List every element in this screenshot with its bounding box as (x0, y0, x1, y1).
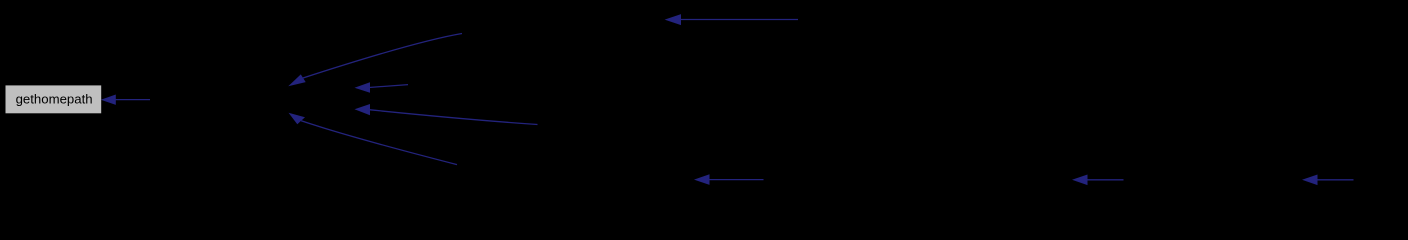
wire edge E2 curve from upper right (303, 34, 462, 79)
arrowhead E2 (288, 74, 306, 86)
arrowhead E5 (289, 113, 306, 125)
wire edge Eb1 (708, 179, 764, 181)
svg-text:gethomepath: gethomepath (16, 92, 93, 107)
wire edge E5 curve from lower right (301, 121, 457, 165)
wire edge E3 short horizontal (369, 85, 408, 88)
node gethomepath label (16, 92, 93, 107)
wire edge E1 into gethomepath (114, 99, 150, 101)
arrowhead Eb1 (694, 174, 710, 185)
wire edge Eb3 (1316, 179, 1354, 181)
wire edge Eb2 (1086, 179, 1124, 181)
arrowhead E3 (355, 82, 371, 93)
wire edge E4 long from right (369, 110, 538, 125)
node gethomepath (gray box) (6, 85, 102, 113)
arrowhead Etop (665, 14, 681, 25)
arrowhead E1 (101, 95, 116, 105)
arrowhead E4 (355, 104, 371, 115)
arrowhead Eb3 (1302, 175, 1318, 186)
arrowhead Eb2 (1072, 175, 1088, 186)
wire edge Etop (678, 19, 798, 21)
